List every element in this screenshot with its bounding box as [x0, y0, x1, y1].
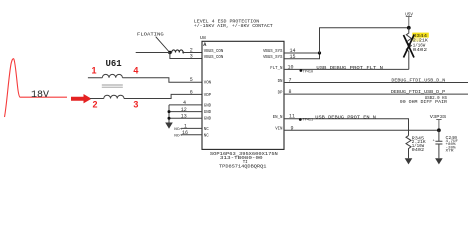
svg-text:VIN: VIN — [275, 126, 283, 132]
wire: GND pin 4 stub — [169, 104, 202, 106]
ground symbol (R345) — [405, 158, 413, 164]
svg-text:FLT_N: FLT_N — [270, 65, 282, 71]
svg-text:6: 6 — [190, 89, 193, 95]
IC U8 body — [202, 41, 284, 149]
svg-text:FLOATING: FLOATING — [137, 31, 164, 37]
svg-text:GND: GND — [204, 102, 212, 108]
resistor R345 — [406, 136, 411, 159]
U61 top winding (pins 1-4) — [88, 74, 202, 82]
ground symbol (chip GND pins) — [165, 123, 173, 129]
svg-text:TP411: TP411 — [303, 119, 313, 123]
svg-text:+: + — [433, 139, 435, 143]
node: gnd junction 2 — [168, 117, 171, 120]
svg-text:DEBUG_FTDI_USB_D_P: DEBUG_FTDI_USB_D_P — [391, 89, 445, 95]
node: VBUS_SYS junction — [318, 51, 321, 54]
svg-text:2: 2 — [93, 100, 98, 110]
svg-text:0402: 0402 — [413, 48, 428, 53]
ground symbol (C240) — [435, 158, 443, 164]
svg-text:4: 4 — [133, 66, 138, 76]
svg-text:USB_DEBUG_PROT_FLT_N: USB_DEBUG_PROT_FLT_N — [316, 65, 383, 71]
svg-text:X7R: X7R — [446, 149, 455, 153]
node: rail junction at R344 — [407, 26, 411, 30]
wire: VBUS_SYS pin 15 — [284, 53, 320, 59]
ferrite coil on pin 2 wire — [172, 50, 183, 53]
svg-text:5: 5 — [190, 77, 193, 83]
wire: GND bus vertical — [168, 105, 170, 123]
svg-text:VDP: VDP — [204, 92, 212, 98]
wire: DEBUG_FTDI_USB_D_N — [284, 82, 468, 84]
FLOATING pointer line — [156, 37, 170, 52]
wire: VIN net — [284, 129, 439, 131]
svg-text:18V: 18V — [31, 90, 49, 101]
wire: DEBUG_FTDI_USB_D_P — [284, 93, 468, 95]
node: VIN junction — [437, 128, 441, 132]
testpoint TP411 — [299, 118, 302, 121]
svg-text:TPD8S714QDBQRQ1: TPD8S714QDBQRQ1 — [219, 164, 266, 170]
capacitor C240 — [435, 130, 442, 158]
svg-text:VBUS_SYS: VBUS_SYS — [263, 48, 283, 54]
svg-text:DP: DP — [278, 89, 283, 95]
svg-text:VBUS_CON: VBUS_CON — [204, 54, 224, 60]
svg-text:3: 3 — [133, 100, 138, 110]
wire: GND pin 12 stub — [169, 111, 202, 113]
svg-text:USB_DEBUG_PROT_EN_N: USB_DEBUG_PROT_EN_N — [315, 114, 376, 120]
svg-text:U61: U61 — [106, 59, 123, 69]
svg-text:GND: GND — [204, 116, 212, 122]
testpoint TP410 — [300, 69, 303, 72]
svg-text:+/-15KV AIR, +/-8KV CONTACT: +/-15KV AIR, +/-8KV CONTACT — [194, 23, 273, 29]
U61 bottom winding (pins 2-3) — [90, 94, 202, 98]
svg-text:NC: NC — [204, 132, 209, 138]
wire: GND pin 13 stub — [169, 117, 202, 119]
wire: floating stub — [136, 52, 170, 54]
svg-text:DEBUG_FTDI_USB_D_N: DEBUG_FTDI_USB_D_N — [391, 77, 445, 83]
svg-text:EN_N: EN_N — [273, 114, 283, 120]
svg-text:NC: NC — [204, 126, 209, 132]
resistor R344 (DNP, crossed out) — [406, 28, 411, 70]
wire: pin 3 stub with riser — [170, 53, 202, 59]
svg-text:VON: VON — [204, 80, 212, 86]
U61 core bars — [102, 85, 123, 87]
node: gnd junction 1 — [168, 110, 171, 113]
annotation: red arrow — [71, 94, 92, 103]
svg-text:VBUS_CON: VBUS_CON — [204, 48, 224, 54]
svg-text:0402: 0402 — [412, 148, 425, 153]
wire: VBUS_SYS riser to rail — [320, 28, 409, 53]
svg-text:3: 3 — [190, 54, 193, 60]
svg-text:313-TB080-00: 313-TB080-00 — [220, 155, 263, 161]
wire: FLT_N net — [284, 68, 409, 70]
svg-text:NC: NC — [174, 128, 180, 132]
DNP X over R344 — [404, 35, 415, 58]
svg-text:90 OHM DIFF PAIR: 90 OHM DIFF PAIR — [400, 101, 448, 105]
wire: EN_N net — [284, 119, 409, 136]
node: VBUS_CON floating junction — [168, 51, 172, 55]
common-mode choke U61 — [88, 74, 202, 98]
wire: pin 2 stub — [183, 52, 202, 54]
svg-text:VBUS_SYS: VBUS_SYS — [263, 54, 283, 60]
annotation: red surge waveform — [5, 59, 68, 117]
svg-text:DN: DN — [278, 78, 283, 84]
R344 yellow highlight — [412, 33, 429, 38]
wire: VBUS_SYS pin 14 — [284, 52, 320, 54]
svg-text:TP410: TP410 — [303, 70, 313, 74]
svg-text:1: 1 — [92, 66, 97, 76]
svg-text:U8: U8 — [200, 35, 206, 41]
svg-text:GND: GND — [204, 109, 212, 115]
